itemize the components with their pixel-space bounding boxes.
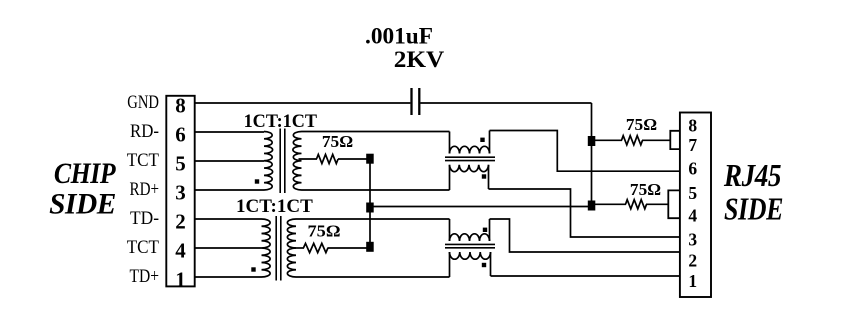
wire node to R1: [592, 139, 623, 141]
svg-text:6: 6: [688, 158, 697, 178]
pin 2 number (chip side): [175, 209, 186, 233]
svg-text:RJ45: RJ45: [723, 159, 781, 193]
pin 2 number (RJ45 side): [688, 250, 697, 270]
node junction tie: [366, 203, 374, 213]
svg-text:SIDE: SIDE: [49, 188, 116, 220]
pin label GND (chip side): [127, 92, 159, 113]
transformer T2 core: [276, 216, 281, 281]
svg-text:TCT: TCT: [127, 150, 160, 171]
resistor R3 zigzag: [317, 154, 339, 163]
svg-text:75Ω: 75Ω: [626, 115, 657, 134]
svg-text:1: 1: [175, 267, 186, 291]
wire T2 to choke L2 top: [296, 218, 450, 220]
svg-text:.001uF: .001uF: [365, 24, 433, 49]
title SIDE (chip): [49, 188, 116, 220]
svg-text:TCT: TCT: [127, 237, 160, 258]
node junction at resistor R2: [588, 201, 596, 211]
svg-text:2: 2: [688, 250, 697, 270]
transformer T1 core: [280, 129, 285, 194]
pin 4 number (RJ45 side): [688, 206, 697, 226]
wire node to R2: [592, 203, 627, 205]
svg-text:1CT:1CT: 1CT:1CT: [236, 197, 313, 217]
svg-text:2: 2: [175, 209, 186, 233]
pin label TCT (chip side): [127, 150, 160, 171]
wire choke L2 top to RJ45 pin 2: [490, 219, 680, 252]
node junction at resistor R1: [588, 136, 596, 146]
pin label TD+ (chip side): [130, 266, 160, 287]
wire tie to right node column: [370, 206, 592, 208]
capacitor C1 plates: [412, 88, 420, 115]
node junction T1 tap: [366, 154, 374, 164]
svg-text:GND: GND: [127, 92, 159, 113]
svg-text:1: 1: [688, 271, 697, 291]
wire TCT pin4 to T2 center tap: [195, 247, 262, 249]
wire T2 to choke L2 bottom: [296, 276, 450, 278]
svg-text:RD-: RD-: [130, 121, 159, 142]
wire T2 center tap to R4: [293, 247, 304, 249]
transformer T2 polarity dot: [251, 267, 255, 271]
svg-text:2KV: 2KV: [394, 47, 445, 72]
svg-text:4: 4: [688, 206, 697, 226]
choke L1 bottom winding: [450, 165, 489, 190]
title CHIP: [54, 157, 117, 190]
svg-text:RD+: RD+: [130, 179, 160, 200]
resistor R4 zigzag: [303, 243, 328, 252]
pin label TD- (chip side): [130, 208, 159, 229]
wire choke L1 top to RJ45 pin 6: [490, 131, 680, 172]
transformer T1 label 1CT:1CT: [244, 112, 318, 132]
transformer T1 primary winding: [264, 132, 273, 191]
pin 6 number (chip side): [175, 122, 186, 146]
svg-text:6: 6: [175, 122, 186, 146]
wire T1 to choke L1 bottom: [302, 189, 450, 191]
wire RD+ pin3 to T1: [195, 189, 264, 191]
transformer T2 secondary winding: [287, 219, 296, 277]
choke L2 bottom winding: [450, 252, 491, 277]
wire capacitor to node column: [420, 102, 591, 104]
pin 5 number (RJ45 side): [688, 183, 697, 203]
capacitor C1 rating 2KV: [394, 47, 445, 72]
wire TCT pin5 to T1 center tap: [195, 160, 264, 162]
chip-side connector J1: [166, 96, 194, 287]
wire vertical node column right: [591, 103, 593, 207]
resistor R2 label 75&#937;: [630, 180, 661, 199]
wire GND pin8 to capacitor: [195, 102, 411, 104]
svg-text:5: 5: [175, 151, 186, 175]
RJ45 connector J2: [680, 113, 711, 298]
title SIDE (RJ45): [724, 192, 783, 227]
wire R1 to bracket 8/7: [642, 139, 670, 141]
svg-text:SIDE: SIDE: [724, 192, 783, 227]
wire choke L2 bottom to RJ45 pin 1: [491, 275, 680, 277]
pin label RD+ (chip side): [130, 179, 160, 200]
transformer T1 polarity dot: [255, 179, 259, 183]
wire TD+ pin1 to T2: [195, 276, 262, 278]
svg-text:TD-: TD-: [130, 208, 159, 229]
svg-text:3: 3: [175, 180, 186, 204]
pin 3 number (chip side): [175, 180, 186, 204]
transformer T1 secondary winding: [293, 132, 302, 191]
svg-text:CHIP: CHIP: [54, 157, 117, 190]
svg-text:4: 4: [175, 238, 186, 262]
wire TD- pin2 to T2: [195, 218, 262, 220]
pin label TCT (chip side): [127, 237, 160, 258]
svg-text:3: 3: [688, 230, 697, 250]
resistor R4 label 75&#937;: [308, 222, 341, 241]
pin 3 number (RJ45 side): [688, 230, 697, 250]
wire T1 center tap to R3: [299, 158, 318, 160]
wire T1 to choke L1 top: [302, 131, 450, 133]
wire R4 to junction node: [328, 247, 371, 249]
transformer T2 primary winding: [262, 219, 271, 277]
svg-text:8: 8: [175, 93, 186, 117]
wire junction column: [369, 159, 371, 247]
pin 5 number (chip side): [175, 151, 186, 175]
svg-text:5: 5: [688, 183, 697, 203]
svg-text:8: 8: [688, 115, 697, 135]
resistor R3 label 75&#937;: [322, 132, 353, 151]
choke L2 top winding: [450, 219, 490, 241]
choke L1 top winding: [450, 131, 490, 154]
pin 6 number (RJ45 side): [688, 158, 697, 178]
pin 7 number (RJ45 side): [688, 135, 697, 155]
choke L1 core: [445, 157, 495, 160]
wire RD- pin6 to T1: [195, 131, 264, 133]
resistor R1 zigzag: [622, 136, 643, 145]
bracket shorting pins 5 and 4: [668, 190, 680, 218]
svg-text:TD+: TD+: [130, 266, 160, 287]
pin 8 number (RJ45 side): [688, 115, 697, 135]
resistor R2 zigzag: [626, 200, 647, 209]
svg-text:75Ω: 75Ω: [308, 222, 341, 241]
pin 8 number (chip side): [175, 93, 186, 117]
resistor R1 label 75&#937;: [626, 115, 657, 134]
transformer T2 label 1CT:1CT: [236, 197, 313, 217]
pin 1 number (RJ45 side): [688, 271, 697, 291]
choke L1 polarity dot top: [480, 138, 484, 142]
choke L1 polarity dot bottom: [482, 174, 486, 178]
pin 4 number (chip side): [175, 238, 186, 262]
bracket shorting pins 8 and 7: [670, 131, 680, 149]
title RJ45: [723, 159, 781, 193]
wire choke L1 bottom to RJ45 pin 3: [489, 189, 680, 237]
wire R3 to junction node: [338, 158, 370, 160]
wire R2 to bracket 5/4: [646, 203, 668, 205]
capacitor C1 value .001uF: [365, 24, 433, 49]
svg-text:75Ω: 75Ω: [630, 180, 661, 199]
svg-text:7: 7: [688, 135, 697, 155]
choke L2 polarity dot bottom: [482, 263, 486, 267]
choke L2 core: [445, 244, 495, 247]
choke L2 polarity dot top: [483, 228, 487, 232]
node junction T2 tap: [366, 242, 374, 252]
pin label RD- (chip side): [130, 121, 159, 142]
pin 1 number (chip side): [175, 267, 186, 291]
svg-text:75Ω: 75Ω: [322, 132, 353, 151]
